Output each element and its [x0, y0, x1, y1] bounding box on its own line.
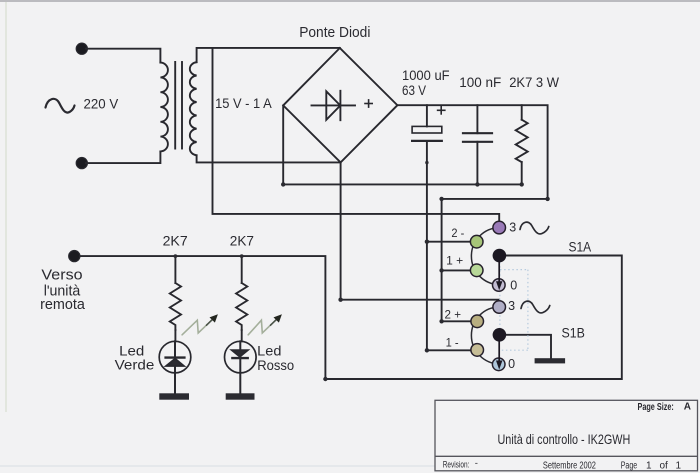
svg-text:of: of [660, 460, 669, 471]
resistor R1 2K7 zigzag [170, 283, 181, 330]
node dot 2+ on plus rail [439, 319, 443, 323]
LED D2 wire through [239, 341, 241, 393]
svg-text:1: 1 [646, 460, 652, 471]
switch S1B rotor arrow [498, 335, 500, 362]
capacitor C1 1000uF plates [412, 126, 442, 133]
switch S1A pin 0 [493, 279, 506, 292]
node dot 1- on minus rail [425, 348, 429, 352]
node dot bridge minus corner [281, 182, 285, 186]
LED D2 anode triangle pointing down [232, 350, 248, 356]
svg-text:1: 1 [676, 460, 682, 471]
transformer T1 core [174, 62, 176, 149]
resistor R1 2K7 lead top [174, 256, 176, 283]
wire 2+ branch [442, 320, 472, 322]
terminal J3 verso l'unita remota [69, 251, 80, 262]
svg-text:Page Size:: Page Size: [638, 402, 674, 413]
svg-text:1 +: 1 + [446, 256, 463, 268]
svg-text:1000 uF: 1000 uF [402, 67, 450, 83]
svg-text:2K7: 2K7 [163, 233, 188, 249]
wire secondary top to bridge top vertex [197, 48, 340, 62]
switch S1B rotor [493, 328, 507, 342]
LED D1 Verde circle [159, 341, 191, 373]
transformer T1 primary winding [160, 63, 167, 152]
ground GND2 [226, 393, 255, 399]
wire node AC1 drop from secondary-top wire [213, 48, 500, 222]
switch S1B pin 0 [492, 358, 505, 371]
LED D1 wire through [174, 341, 176, 393]
switch S1A rotor arrow [498, 256, 500, 282]
LED D1 cathode bar (top) [166, 356, 185, 358]
switch S1B contact arc [471, 307, 499, 364]
svg-text:3: 3 [509, 220, 516, 234]
transformer T1 secondary winding [190, 62, 197, 155]
220V source sine symbol [46, 99, 75, 113]
switch S1B pin 2 [471, 315, 484, 328]
svg-text:S1A: S1A [569, 240, 592, 255]
svg-text:Page: Page [621, 460, 638, 471]
svg-text:Revision:: Revision: [443, 460, 470, 471]
node dot resistor R2 top [240, 254, 244, 258]
switch S1B pin 3 [493, 301, 506, 314]
node dot minus rail stray [425, 161, 428, 164]
page top scan edge [0, 0, 700, 2]
svg-text:A: A [684, 401, 691, 412]
svg-text:Rosso: Rosso [257, 357, 294, 373]
svg-text:2 +: 2 + [445, 310, 462, 322]
wire rotor A stub [499, 255, 506, 257]
svg-text:Settembre 2002: Settembre 2002 [543, 460, 596, 471]
switch S1B pin 1 [471, 344, 484, 357]
wire 1- branch [427, 349, 471, 351]
photon arrow LED D2 [248, 314, 282, 335]
photon arrow LED D1 [182, 314, 218, 335]
terminal J1 top 220V [76, 43, 87, 54]
ground GND1 [159, 393, 189, 399]
page left scan edge [5, 2, 7, 412]
svg-text:220 V: 220 V [84, 95, 119, 111]
resistor R2 2K7 lead top [241, 256, 243, 283]
resistor R3 2K7 3W leads [521, 105, 523, 120]
wire 1+ branch [442, 269, 471, 271]
switch S1A rotor [493, 249, 507, 263]
LED D2 cathode bar (bottom) [232, 357, 247, 359]
wire secondary bottom to bridge bottom vertex [197, 155, 341, 162]
capacitor C1 1000uF lead top [426, 105, 428, 126]
switch S1A pin 3 [493, 221, 506, 234]
LED D2 Rosso circle [225, 341, 257, 373]
capacitor C2 100nF lead top [476, 105, 478, 133]
resistor R3 2K7 3W zigzag [516, 120, 528, 162]
svg-text:0: 0 [508, 357, 515, 371]
wire rotor B to ground [506, 335, 551, 358]
wire bridge minus to filter bottoms [283, 105, 522, 184]
ground GND3 [535, 358, 566, 363]
svg-text:-: - [475, 458, 478, 469]
plus sign inside bridge [365, 103, 372, 105]
svg-text:15 V - 1 A: 15 V - 1 A [215, 96, 272, 111]
bridge rectifier diamond [283, 48, 397, 162]
LED D1 anode triangle pointing up [166, 359, 184, 366]
node dot resistor R1 top [174, 254, 178, 258]
svg-text:Verso: Verso [41, 267, 82, 283]
wire J3 to remote loop [80, 256, 622, 380]
node dot C2 bottom [475, 182, 479, 186]
terminal J2 bottom 220V [76, 158, 87, 169]
svg-text:S1B: S1B [562, 325, 585, 340]
svg-text:Unità di controllo - IK2GWH: Unità di controllo - IK2GWH [498, 431, 631, 447]
switch S1A contact arc [471, 228, 499, 285]
sine squiggle at S1A pin3 [520, 222, 549, 234]
sine squiggle at S1B pin3 [521, 301, 550, 313]
wire J2 to transformer primary bottom [86, 151, 160, 163]
wire bridge plus top rail [397, 105, 547, 321]
wire J1 to transformer primary top [86, 49, 160, 63]
svg-text:2K7 3 W: 2K7 3 W [509, 74, 560, 90]
node dot AC2 corner [338, 298, 342, 302]
wire bridge bottom AC2 down and to S1B pin3 [341, 162, 500, 301]
node dot plus corner right [545, 197, 549, 201]
resistor R1 lead to LED [174, 330, 176, 341]
svg-text:remota: remota [40, 297, 86, 313]
switch S1A mechanical dotted link [500, 262, 528, 350]
capacitor C2 lead bottom [476, 142, 478, 185]
svg-text:100 nF: 100 nF [459, 74, 501, 90]
node dot R3 bottom corner [520, 182, 524, 186]
title block box [435, 400, 698, 471]
svg-text:0: 0 [510, 278, 517, 292]
node dot plus corner left [439, 197, 443, 201]
junction dots [174, 161, 550, 381]
wire 2- branch [427, 241, 471, 243]
svg-text:Verde: Verde [115, 356, 155, 372]
node dot 1+ on plus rail [439, 268, 443, 272]
switch S1A pin 1 [470, 264, 483, 277]
resistor R2 lead to LED [241, 330, 243, 341]
capacitor C1 minus lead / minus rail [426, 141, 428, 350]
capacitor C2 100nF plates [463, 132, 492, 134]
svg-text:Ponte Diodi: Ponte Diodi [299, 24, 370, 41]
svg-text:63 V: 63 V [402, 82, 427, 98]
diode inside bridge [312, 104, 356, 106]
resistor R2 2K7 zigzag [236, 283, 247, 330]
svg-text:1 -: 1 - [446, 338, 459, 350]
svg-text:2K7: 2K7 [230, 233, 254, 249]
svg-text:2 -: 2 - [451, 228, 464, 240]
plus sign at C1 [438, 109, 445, 111]
svg-text:3: 3 [508, 299, 515, 313]
node dot 2- on minus rail [425, 240, 429, 244]
switch S1A pin 2 [470, 235, 483, 248]
node dot remote loop corner [323, 377, 327, 381]
page bottom faint scan line [0, 465, 435, 467]
